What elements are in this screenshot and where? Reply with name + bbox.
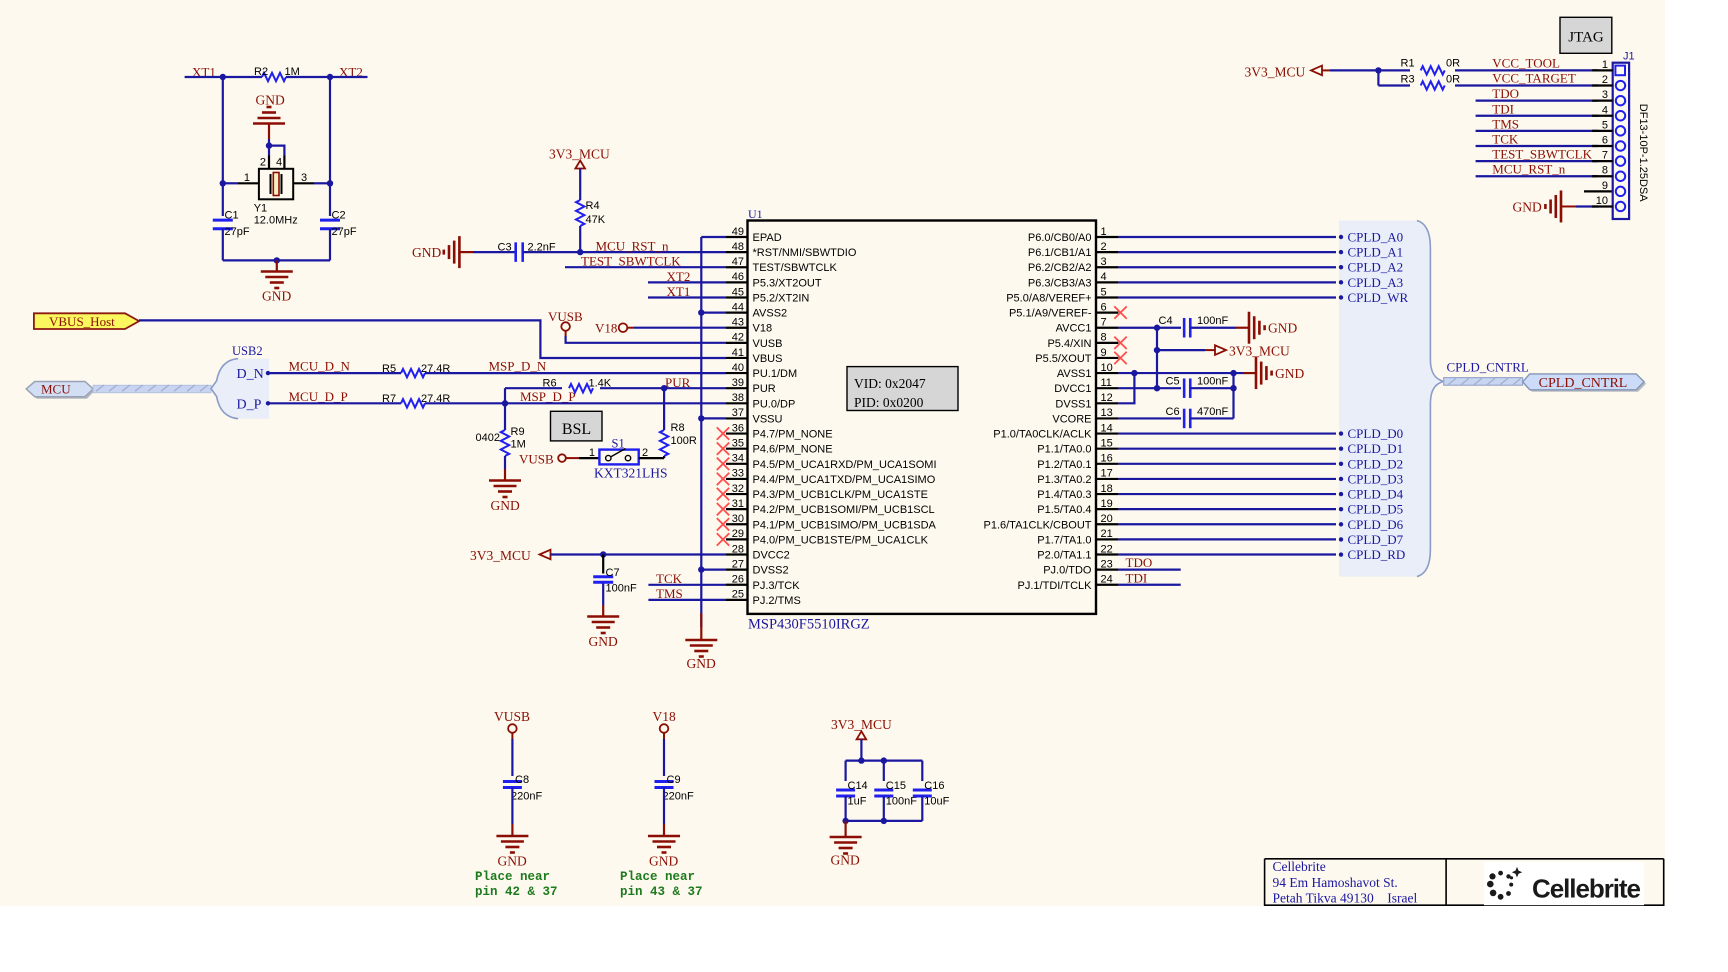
pin 33 P4.4/PM_UCA1TXD/PM_UCA1SIMO bbox=[726, 478, 748, 480]
wire jtag pin7 bbox=[1476, 160, 1598, 162]
wire TDI pin24 bbox=[1118, 584, 1180, 586]
svg-text:R4: R4 bbox=[586, 200, 600, 212]
wire R8 to PUR bbox=[663, 388, 665, 430]
svg-text:C6: C6 bbox=[1166, 406, 1180, 418]
svg-text:GND: GND bbox=[831, 853, 860, 868]
node rail junction a bbox=[858, 757, 864, 763]
svg-text:P6.0/CB0/A0: P6.0/CB0/A0 bbox=[1028, 232, 1092, 244]
svg-text:GND: GND bbox=[491, 498, 520, 513]
harness pin CPLD_RD bbox=[1339, 552, 1343, 556]
svg-text:P5.2/XT2IN: P5.2/XT2IN bbox=[753, 292, 810, 304]
harness pin CPLD_A1 bbox=[1339, 250, 1343, 254]
wire AVCC1 pin7 bbox=[1118, 327, 1181, 329]
svg-text:8: 8 bbox=[1602, 165, 1608, 177]
svg-text:10: 10 bbox=[1596, 195, 1608, 207]
wire CPLD_D3 bbox=[1118, 478, 1336, 480]
wire C6 right bbox=[1190, 417, 1233, 419]
svg-text:0402: 0402 bbox=[476, 432, 500, 444]
wire jtag pin5 bbox=[1476, 130, 1598, 132]
node rail bottom b bbox=[881, 818, 887, 824]
svg-text:Place near: Place near bbox=[475, 870, 550, 884]
pin 43 V18 bbox=[726, 327, 748, 329]
svg-text:GND: GND bbox=[1268, 321, 1297, 336]
svg-text:U1: U1 bbox=[748, 207, 763, 221]
node AVSS2 junction bbox=[698, 309, 704, 315]
capacitor C6 bbox=[1183, 409, 1186, 429]
port CPLD_CNTRL flag bbox=[1525, 376, 1647, 392]
svg-text:GND: GND bbox=[412, 245, 441, 260]
pin 48 *RST/NMI/SBWTDIO bbox=[726, 251, 748, 253]
svg-text:CPLD_D2: CPLD_D2 bbox=[1348, 456, 1404, 471]
wire D_N left bbox=[269, 372, 401, 374]
pin 31 P4.2/PM_UCB1SOMI/PM_UCB1SCL bbox=[726, 508, 748, 510]
pin 1 P6.0/CB0/A0 bbox=[1096, 236, 1118, 238]
svg-text:1: 1 bbox=[1101, 226, 1107, 238]
svg-text:MCU_D_P: MCU_D_P bbox=[289, 389, 348, 404]
svg-text:P1.5/TA0.4: P1.5/TA0.4 bbox=[1037, 504, 1091, 516]
svg-text:15: 15 bbox=[1101, 437, 1113, 449]
node junction XT1 bbox=[220, 74, 226, 80]
pin 25 PJ.2/TMS bbox=[726, 599, 748, 601]
wire CPLD_A1 bbox=[1118, 251, 1336, 253]
bus CPLD_CNTRL bbox=[1444, 378, 1523, 386]
svg-text:28: 28 bbox=[732, 543, 744, 555]
pin 35 P4.6/PM_NONE bbox=[726, 448, 748, 450]
svg-text:CPLD_D3: CPLD_D3 bbox=[1348, 471, 1404, 486]
pin 41 VBUS bbox=[726, 357, 748, 359]
svg-text:41: 41 bbox=[732, 347, 744, 359]
svg-text:GND: GND bbox=[589, 634, 618, 649]
svg-text:MCU_RST_n: MCU_RST_n bbox=[1492, 162, 1565, 177]
wire crystal bottom bbox=[223, 259, 330, 261]
harness pin CPLD_A2 bbox=[1339, 265, 1343, 269]
wire C5 right bbox=[1190, 387, 1233, 389]
svg-text:VCC_TOOL: VCC_TOOL bbox=[1492, 56, 1560, 71]
svg-text:VBUS: VBUS bbox=[753, 353, 783, 365]
svg-text:100nF: 100nF bbox=[1197, 315, 1228, 327]
svg-text:44: 44 bbox=[732, 301, 744, 313]
harness pin CPLD_D7 bbox=[1339, 537, 1343, 541]
op-amp U1 body bbox=[748, 221, 1097, 614]
svg-text:CPLD_A0: CPLD_A0 bbox=[1348, 230, 1404, 245]
pin 45 P5.2/XT2IN bbox=[726, 296, 748, 298]
resistor R5 bbox=[401, 369, 425, 377]
svg-text:P6.3/CB3/A3: P6.3/CB3/A3 bbox=[1028, 277, 1092, 289]
svg-text:10: 10 bbox=[1101, 362, 1113, 374]
wire C9 down bbox=[663, 788, 665, 825]
harness pin CPLD_A0 bbox=[1339, 235, 1343, 239]
wire C8 down bbox=[511, 788, 513, 825]
harness pin CPLD_D0 bbox=[1339, 431, 1343, 435]
svg-text:43: 43 bbox=[732, 317, 744, 329]
svg-text:Petah Tikva 49130 Israel: Petah Tikva 49130 Israel bbox=[1273, 891, 1418, 906]
svg-text:26: 26 bbox=[732, 574, 744, 586]
node R4/C3 junction bbox=[577, 249, 583, 255]
svg-text:11: 11 bbox=[1101, 377, 1112, 389]
node C7 junction bbox=[600, 551, 606, 557]
svg-text:P5.1/A9/VEREF-: P5.1/A9/VEREF- bbox=[1009, 308, 1092, 320]
svg-text:R3: R3 bbox=[1401, 74, 1415, 86]
svg-text:49: 49 bbox=[732, 226, 744, 238]
svg-text:GND: GND bbox=[256, 93, 285, 108]
svg-text:100nF: 100nF bbox=[886, 796, 917, 808]
wire CPLD_D1 bbox=[1118, 448, 1336, 450]
svg-text:27: 27 bbox=[732, 558, 744, 570]
svg-text:P4.0/PM_UCB1STE/PM_UCA1CLK: P4.0/PM_UCB1STE/PM_UCA1CLK bbox=[753, 534, 929, 546]
svg-text:P2.0/TA1.1: P2.0/TA1.1 bbox=[1037, 550, 1091, 562]
port VBUS_Host bbox=[34, 313, 139, 329]
wire CPLD_D5 bbox=[1118, 508, 1336, 510]
svg-text:12.0MHz: 12.0MHz bbox=[254, 215, 298, 227]
capacitor C7 bbox=[602, 555, 604, 574]
pin 32 P4.3/PM_UCB1CLK/PM_UCA1STE bbox=[726, 493, 748, 495]
svg-text:36: 36 bbox=[732, 422, 744, 434]
wire S1 to R8 bbox=[639, 457, 664, 459]
pin 14 P1.0/TA0CLK/ACLK bbox=[1096, 432, 1118, 434]
svg-text:TDO: TDO bbox=[1492, 86, 1519, 101]
pin 12 DVSS1 bbox=[1096, 402, 1118, 404]
wire CPLD_A2 bbox=[1118, 266, 1336, 268]
svg-text:35: 35 bbox=[732, 437, 744, 449]
svg-text:C14: C14 bbox=[848, 780, 868, 792]
pin 46 P5.3/XT2OUT bbox=[726, 281, 748, 283]
wire jtag pin6 bbox=[1476, 145, 1598, 147]
pin 49 EPAD bbox=[726, 236, 748, 238]
svg-text:CPLD_D4: CPLD_D4 bbox=[1348, 487, 1404, 502]
pin 40 PU.1/DM bbox=[726, 372, 748, 374]
node pin3 junction bbox=[327, 180, 333, 186]
svg-text:VUSB: VUSB bbox=[753, 338, 783, 350]
svg-text:GND: GND bbox=[649, 854, 678, 869]
sheet entry USB2 bbox=[211, 359, 269, 419]
harness pin CPLD_D5 bbox=[1339, 507, 1343, 511]
svg-text:CPLD_CNTRL: CPLD_CNTRL bbox=[1539, 376, 1628, 391]
svg-text:1M: 1M bbox=[285, 66, 300, 78]
wire 3V3 vertical bbox=[1156, 328, 1158, 388]
node jtag 3v3 junction bbox=[1375, 67, 1381, 73]
svg-text:1: 1 bbox=[244, 172, 250, 184]
svg-text:19: 19 bbox=[1101, 498, 1113, 510]
wire CPLD_D0 bbox=[1118, 432, 1336, 434]
svg-text:32: 32 bbox=[732, 483, 744, 495]
svg-text:PJ.2/TMS: PJ.2/TMS bbox=[753, 595, 801, 607]
pin 27 DVSS2 bbox=[726, 569, 748, 571]
svg-text:7: 7 bbox=[1602, 150, 1608, 162]
pin 7 AVCC1 bbox=[1096, 327, 1118, 329]
svg-text:D_N: D_N bbox=[237, 367, 264, 382]
svg-text:P5.3/XT2OUT: P5.3/XT2OUT bbox=[753, 277, 822, 289]
pin 36 P4.7/PM_NONE bbox=[726, 432, 748, 434]
svg-text:Cellebrite: Cellebrite bbox=[1532, 874, 1641, 904]
svg-text:1: 1 bbox=[589, 447, 595, 459]
pin 22 P2.0/TA1.1 bbox=[1096, 553, 1118, 555]
pin stub J1-7 bbox=[1592, 160, 1613, 162]
svg-text:R5: R5 bbox=[382, 363, 396, 375]
svg-text:C16: C16 bbox=[924, 780, 944, 792]
ground GND chain bottom bbox=[700, 613, 702, 640]
wire cap rail bottom bbox=[844, 796, 846, 821]
resistor R2 bbox=[262, 73, 286, 81]
svg-text:KXT321LHS: KXT321LHS bbox=[594, 466, 668, 481]
svg-text:V18: V18 bbox=[595, 321, 617, 336]
capacitor C5 bbox=[1183, 378, 1186, 398]
svg-text:TMS: TMS bbox=[656, 586, 683, 601]
capacitor C2 bbox=[320, 219, 340, 222]
svg-text:220nF: 220nF bbox=[511, 791, 542, 803]
svg-text:6: 6 bbox=[1101, 301, 1107, 313]
svg-text:46: 46 bbox=[732, 271, 744, 283]
svg-text:P4.7/PM_NONE: P4.7/PM_NONE bbox=[753, 429, 833, 441]
capacitor C14 bbox=[836, 789, 855, 792]
svg-text:C8: C8 bbox=[515, 774, 529, 786]
svg-text:7: 7 bbox=[1101, 317, 1107, 329]
svg-text:BSL: BSL bbox=[562, 421, 591, 438]
pin 8 P5.4/XIN bbox=[1096, 342, 1118, 344]
ground GND below R9 bbox=[489, 479, 521, 482]
svg-text:MCU_RST_n: MCU_RST_n bbox=[596, 239, 669, 254]
harness pin CPLD_WR bbox=[1339, 295, 1343, 299]
wire VUSB to S1 bbox=[566, 457, 579, 459]
svg-text:CPLD_CNTRL: CPLD_CNTRL bbox=[1447, 360, 1529, 375]
wire D_N right bbox=[425, 372, 726, 374]
svg-text:DF13-10P-1.25DSA: DF13-10P-1.25DSA bbox=[1637, 104, 1649, 202]
svg-text:R8: R8 bbox=[671, 422, 685, 434]
svg-text:CPLD_D1: CPLD_D1 bbox=[1348, 441, 1404, 456]
node D_P junction bbox=[502, 400, 508, 406]
wire crystal pin3 bbox=[293, 182, 314, 184]
svg-text:TEST_SBWTCLK: TEST_SBWTCLK bbox=[1492, 147, 1592, 162]
harness pin CPLD_D3 bbox=[1339, 477, 1343, 481]
svg-text:42: 42 bbox=[732, 332, 744, 344]
svg-text:V18: V18 bbox=[653, 709, 676, 724]
svg-text:CPLD_RD: CPLD_RD bbox=[1348, 547, 1406, 562]
node PUR junction bbox=[661, 385, 667, 391]
wire CPLD_D7 bbox=[1118, 538, 1336, 540]
svg-text:47K: 47K bbox=[586, 214, 606, 226]
pin 21 P1.7/TA1.0 bbox=[1096, 538, 1118, 540]
svg-text:CPLD_A1: CPLD_A1 bbox=[1348, 245, 1404, 260]
svg-text:PJ.0/TDO: PJ.0/TDO bbox=[1043, 565, 1092, 577]
svg-text:100nF: 100nF bbox=[606, 583, 637, 595]
svg-text:GND: GND bbox=[262, 289, 291, 304]
node pin7 junction bbox=[1154, 325, 1160, 331]
crystal Y1 bbox=[259, 169, 293, 200]
svg-text:Y1: Y1 bbox=[254, 203, 267, 215]
ground GND C14 bbox=[830, 836, 862, 839]
wire 3V3 branch bbox=[1157, 349, 1205, 351]
svg-text:PUR: PUR bbox=[753, 383, 776, 395]
svg-text:8: 8 bbox=[1101, 332, 1107, 344]
wire AVSS1-DVSS1 bbox=[1118, 373, 1134, 403]
svg-text:TDI: TDI bbox=[1492, 101, 1514, 116]
svg-text:14: 14 bbox=[1101, 422, 1113, 434]
pin 4 P6.3/CB3/A3 bbox=[1096, 281, 1118, 283]
svg-text:R9: R9 bbox=[511, 426, 525, 438]
pin 47 TEST/SBWTCLK bbox=[726, 266, 748, 268]
title block frame bbox=[1265, 858, 1664, 860]
wire CPLD_A3 bbox=[1118, 281, 1336, 283]
node VSSU junction bbox=[698, 415, 704, 421]
svg-text:Cellebrite: Cellebrite bbox=[1273, 859, 1326, 874]
wire XT1-R2-XT2 top bbox=[185, 76, 262, 78]
svg-text:2: 2 bbox=[1101, 241, 1107, 253]
node rail junction b bbox=[881, 757, 887, 763]
svg-text:P6.2/CB2/A2: P6.2/CB2/A2 bbox=[1028, 262, 1092, 274]
svg-text:10uF: 10uF bbox=[924, 796, 949, 808]
pin stub J1-8 bbox=[1592, 175, 1613, 177]
svg-text:CPLD_A2: CPLD_A2 bbox=[1348, 260, 1404, 275]
box JTAG bbox=[1560, 17, 1612, 53]
pin stub J1-5 bbox=[1592, 130, 1613, 132]
wire XT1 to pin45 bbox=[648, 296, 726, 298]
svg-text:VBUS_Host: VBUS_Host bbox=[49, 314, 115, 329]
svg-text:GND: GND bbox=[1275, 366, 1304, 381]
svg-text:MSP_D_N: MSP_D_N bbox=[489, 359, 547, 374]
svg-text:PUR: PUR bbox=[665, 375, 691, 390]
pin 26 PJ.3/TCK bbox=[726, 584, 748, 586]
svg-text:J1: J1 bbox=[1623, 51, 1635, 63]
svg-text:TEST/SBWTCLK: TEST/SBWTCLK bbox=[753, 262, 838, 274]
pin 39 PUR bbox=[726, 387, 748, 389]
pin 13 VCORE bbox=[1096, 417, 1118, 419]
svg-text:VID: 0x2047: VID: 0x2047 bbox=[854, 376, 926, 391]
wire VBUS_Host to pin41 bbox=[139, 320, 726, 358]
pin 20 P1.6/TA1CLK/CBOUT bbox=[1096, 523, 1118, 525]
svg-text:DVCC1: DVCC1 bbox=[1054, 383, 1091, 395]
svg-text:TDO: TDO bbox=[1126, 555, 1153, 570]
node pin11 junction b bbox=[1230, 385, 1236, 391]
svg-text:4: 4 bbox=[276, 157, 282, 169]
svg-text:34: 34 bbox=[732, 453, 744, 465]
svg-text:V18: V18 bbox=[753, 323, 773, 335]
wire DVSS2 pin27 bbox=[701, 568, 726, 570]
pin stub J1-6 bbox=[1592, 145, 1613, 147]
svg-text:27pF: 27pF bbox=[332, 226, 357, 238]
svg-text:PJ.1/TDI/TCLK: PJ.1/TDI/TCLK bbox=[1018, 580, 1093, 592]
wire to gnd C14 bbox=[844, 821, 846, 837]
pin 44 AVSS2 bbox=[726, 312, 748, 314]
capacitor C4 bbox=[1183, 318, 1186, 338]
pin 29 P4.0/PM_UCB1STE/PM_UCA1CLK bbox=[726, 538, 748, 540]
ground GND right bbox=[1255, 357, 1258, 389]
svg-text:6: 6 bbox=[1602, 135, 1608, 147]
svg-text:D_P: D_P bbox=[237, 398, 262, 413]
svg-text:R7: R7 bbox=[382, 393, 396, 405]
capacitor C15 bbox=[874, 789, 893, 792]
svg-text:P5.4/XIN: P5.4/XIN bbox=[1047, 338, 1091, 350]
wire D_P left bbox=[269, 402, 401, 404]
svg-text:P1.6/TA1CLK/CBOUT: P1.6/TA1CLK/CBOUT bbox=[984, 519, 1092, 531]
svg-text:P1.7/TA1.0: P1.7/TA1.0 bbox=[1037, 534, 1091, 546]
pin stub J1-4 bbox=[1592, 115, 1613, 117]
svg-text:MCU: MCU bbox=[41, 382, 71, 397]
harness pin CPLD_D1 bbox=[1339, 446, 1343, 450]
pin 18 P1.4/TA0.3 bbox=[1096, 493, 1118, 495]
svg-text:P4.5/PM_UCA1RXD/PM_UCA1SOMI: P4.5/PM_UCA1RXD/PM_UCA1SOMI bbox=[753, 459, 937, 471]
svg-text:P1.1/TA0.0: P1.1/TA0.0 bbox=[1037, 444, 1091, 456]
svg-text:DVCC2: DVCC2 bbox=[753, 550, 790, 562]
pin 11 DVCC1 bbox=[1096, 387, 1118, 389]
svg-text:P1.3/TA0.2: P1.3/TA0.2 bbox=[1037, 474, 1091, 486]
svg-text:5: 5 bbox=[1602, 119, 1608, 131]
svg-text:C2: C2 bbox=[332, 210, 346, 222]
svg-text:9: 9 bbox=[1602, 180, 1608, 192]
harness CPLD bbox=[1339, 221, 1444, 577]
wire right vertical to C2 bbox=[329, 77, 331, 216]
harness pin CPLD_D2 bbox=[1339, 462, 1343, 466]
wire cap rail top bbox=[846, 759, 923, 761]
svg-text:25: 25 bbox=[732, 589, 744, 601]
svg-text:21: 21 bbox=[1101, 528, 1113, 540]
pin 23 PJ.0/TDO bbox=[1096, 569, 1118, 571]
svg-text:3V3_MCU: 3V3_MCU bbox=[1229, 344, 1290, 359]
wire drop to R3 bbox=[1377, 70, 1379, 85]
node pin1 junction bbox=[220, 180, 226, 186]
svg-text:MCU_D_N: MCU_D_N bbox=[289, 359, 351, 374]
pin 10 AVSS1 bbox=[1096, 372, 1118, 374]
ground GND C9 bbox=[648, 835, 680, 838]
node pin10 junction b bbox=[1230, 370, 1236, 376]
svg-text:45: 45 bbox=[732, 286, 744, 298]
svg-text:39: 39 bbox=[732, 377, 744, 389]
svg-text:4: 4 bbox=[1602, 104, 1608, 116]
capacitor C9 bbox=[655, 780, 674, 783]
svg-text:CPLD_D7: CPLD_D7 bbox=[1348, 532, 1404, 547]
svg-text:CPLD_WR: CPLD_WR bbox=[1348, 290, 1409, 305]
wire jtag pin4 bbox=[1476, 115, 1598, 117]
svg-text:*RST/NMI/SBWTDIO: *RST/NMI/SBWTDIO bbox=[753, 247, 857, 259]
svg-text:P1.2/TA0.1: P1.2/TA0.1 bbox=[1037, 459, 1091, 471]
node pin10 junction a bbox=[1131, 370, 1137, 376]
svg-text:100nF: 100nF bbox=[1197, 376, 1228, 388]
svg-text:P1.4/TA0.3: P1.4/TA0.3 bbox=[1037, 489, 1091, 501]
svg-text:P4.2/PM_UCB1SOMI/PM_UCB1SCL: P4.2/PM_UCB1SOMI/PM_UCB1SCL bbox=[753, 504, 935, 516]
svg-text:MSP430F5510IRGZ: MSP430F5510IRGZ bbox=[748, 617, 870, 633]
connector J1 bbox=[1613, 63, 1629, 219]
wire CPLD_WR bbox=[1118, 296, 1336, 298]
wire R4 to junction bbox=[579, 226, 581, 252]
pin 3 P6.2/CB2/A2 bbox=[1096, 266, 1118, 268]
wire VSSU pin37 bbox=[701, 417, 726, 419]
svg-text:DVSS1: DVSS1 bbox=[1055, 398, 1091, 410]
wire TCK pin26 bbox=[648, 584, 726, 586]
svg-text:3V3_MCU: 3V3_MCU bbox=[470, 548, 531, 563]
wire CPLD_D4 bbox=[1118, 493, 1336, 495]
switch S1 bbox=[599, 450, 638, 465]
svg-text:GND: GND bbox=[1513, 200, 1542, 215]
svg-text:1M: 1M bbox=[511, 439, 526, 451]
harness pin CPLD_D4 bbox=[1339, 492, 1343, 496]
svg-text:GND: GND bbox=[687, 656, 716, 671]
node 3V3 branch bbox=[1154, 347, 1160, 353]
wire D_P right bbox=[425, 402, 726, 404]
capacitor C16 bbox=[913, 789, 932, 792]
capacitor C1 bbox=[213, 219, 233, 222]
svg-text:31: 31 bbox=[732, 498, 744, 510]
wire XT2 to pin46 bbox=[648, 281, 726, 283]
resistor R8 bbox=[660, 430, 668, 456]
svg-text:48: 48 bbox=[732, 241, 744, 253]
resistor R7 bbox=[401, 399, 425, 407]
port MCU flag bbox=[28, 384, 95, 399]
harness pin CPLD_D6 bbox=[1339, 522, 1343, 526]
svg-text:29: 29 bbox=[732, 528, 744, 540]
node crystal gnd junction bbox=[266, 142, 272, 148]
svg-text:2: 2 bbox=[1602, 74, 1608, 86]
wire CPLD_D2 bbox=[1118, 463, 1336, 465]
pin stub J1-10 bbox=[1592, 205, 1613, 207]
wire TMS pin25 bbox=[648, 599, 726, 601]
